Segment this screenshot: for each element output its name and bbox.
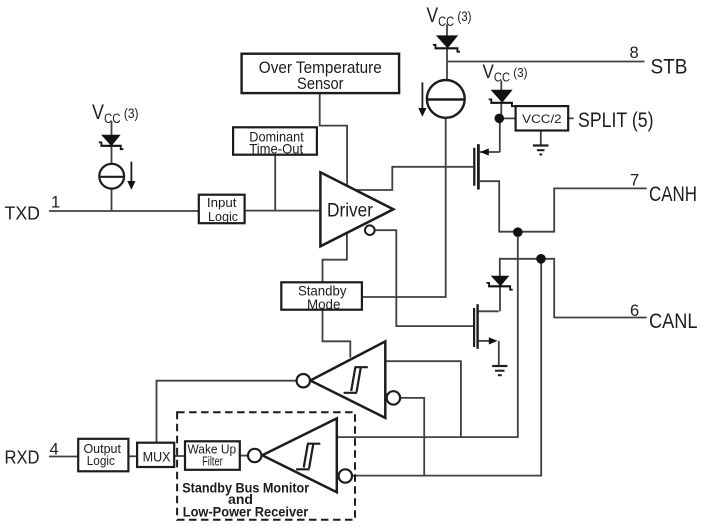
wire Standby Mode right to current source I2 [362,118,446,297]
wire R1 bubble output [400,398,424,476]
box VCC/2 [516,106,569,130]
wire Dominant Time-Out drop [274,155,276,211]
wire Over Temperature Sensor to Driver [320,93,347,186]
transistor M2 [474,304,497,349]
svg-text:8: 8 [630,44,639,62]
receiver R1 (normal receiver) [310,341,385,418]
svg-text:CANL: CANL [649,310,698,333]
node CANL junction dot [536,254,546,264]
wire TXD input net [49,210,321,212]
svg-text:STB: STB [651,55,688,79]
box Standby Mode [281,282,362,312]
wire receivers CANH net [337,232,518,437]
svg-text:Logic: Logic [208,209,238,224]
svg-text:CANH: CANH [649,183,697,206]
current source I1 arrow [127,162,135,190]
wire R2 bubble output to CANL node [352,259,541,476]
box Output Logic [78,439,128,472]
wire STB net [447,25,645,81]
Driver output bubble [365,225,375,235]
wire Driver top output to M1 gate [357,167,474,190]
wire M2 source to ground [478,341,499,366]
R2 output bubble [339,469,352,482]
svg-text:MUX: MUX [143,449,171,464]
wire RXD net [49,455,248,458]
R2 input bubble [248,449,261,462]
wire current source I1 stems [111,122,113,212]
svg-text:Filter: Filter [202,454,223,469]
node CANH junction dot [513,227,523,237]
diode D3 [489,90,515,106]
wire Driver bottom to Standby Mode [323,234,347,283]
wire M1 source to CANH [480,181,647,232]
svg-text:RXD: RXD [5,447,40,468]
transistor M1 [474,144,489,189]
op-amp Driver [320,172,393,246]
node A junction dot [495,114,505,124]
wire diode D4 to M2 drain [499,287,501,312]
wire VCC diode D3 stems [500,81,502,116]
svg-text:7: 7 [630,172,639,190]
svg-text:SPLIT (5): SPLIT (5) [578,108,654,132]
R1 input bubble [297,374,310,387]
svg-text:Logic: Logic [87,453,115,468]
wire CANL net [500,259,647,318]
dashed box Standby Bus Monitor and Low-Power Receiver [177,412,355,520]
svg-text:Low-Power Receiver: Low-Power Receiver [183,504,309,520]
current source I2 arrow [418,82,426,117]
diode D2 [433,36,460,52]
svg-text:VCC/2: VCC/2 [522,112,562,126]
R1 hysteresis symbol [344,367,368,393]
svg-text:Time-Out: Time-Out [249,142,303,157]
svg-text:4: 4 [50,440,59,458]
receiver R2 (low-power receiver) [262,418,337,492]
wire VCC/2 to SPLIT [568,117,573,119]
current source I2 [427,80,465,118]
wire node A to VCC/2 and M1 drain [499,118,516,152]
box MUX [137,443,174,467]
svg-text:Driver: Driver [327,200,373,222]
box Dominant Time-Out [233,127,317,156]
svg-text:1: 1 [51,194,60,212]
svg-text:Mode: Mode [307,297,341,312]
svg-text:6: 6 [630,302,639,320]
ground G1 [533,146,549,155]
box Wake Up Filter [185,441,240,470]
current source I1 [99,164,124,189]
wire R1 input to MUX [157,381,297,443]
R1 output bubble [387,391,400,404]
wire VCC/2 ground stem [540,131,542,146]
svg-text:TXD: TXD [5,203,41,224]
wire M2 drain stub [478,310,499,312]
wire M1 drain stub [480,151,500,153]
R2 hysteresis symbol [296,444,320,470]
ground G2 [492,366,507,375]
wire R1 top output to CANH node [385,361,461,437]
box Over Temperature Sensor [242,54,400,93]
diode D1 [99,135,124,149]
box Input Logic [199,195,245,224]
wire Standby Mode to receiver R1 [323,310,351,358]
diode D4 [487,276,513,289]
wire Driver bubble output to M2 gate [374,230,473,326]
svg-text:Sensor: Sensor [297,75,344,93]
